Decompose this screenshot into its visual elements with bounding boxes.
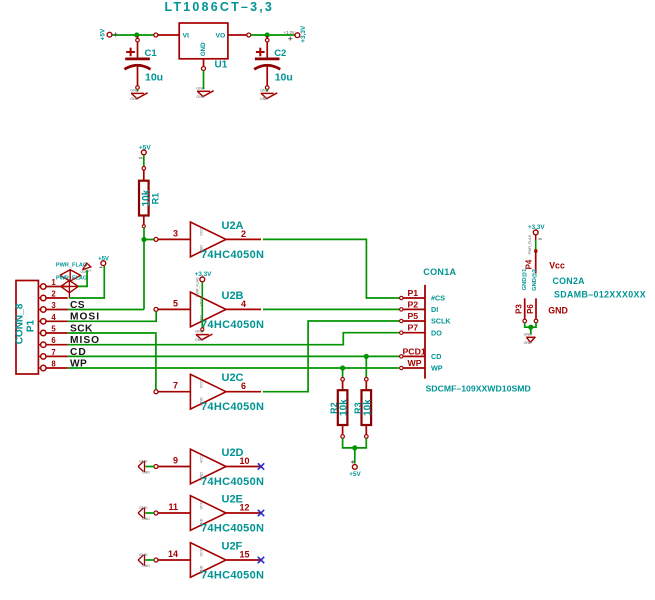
- svg-text:74HC4050N: 74HC4050N: [201, 319, 264, 331]
- svg-text:+3,3V: +3,3V: [284, 30, 295, 35]
- svg-text:GND: GND: [196, 95, 204, 99]
- pin GND of U1: [203, 59, 205, 68]
- svg-text:9: 9: [173, 456, 178, 466]
- svg-text:GND: GND: [524, 341, 532, 345]
- ground at U2E input: [144, 507, 146, 518]
- op-amp buffer U2B 74HC4050N: [190, 292, 226, 327]
- svg-text:U2B: U2B: [222, 290, 244, 302]
- wire +5V to R1: [143, 155, 145, 168]
- wire CON2A grounds join: [525, 323, 536, 327]
- svg-text:U2D: U2D: [222, 447, 244, 459]
- svg-text:5: 5: [51, 325, 56, 334]
- svg-text:GND: GND: [524, 332, 533, 336]
- pin 3 of P1: [38, 309, 40, 311]
- pin P3 of CON2A: [524, 298, 526, 320]
- wire MISO net to CON1A P7: [68, 333, 400, 345]
- pin VO of U1: [228, 34, 249, 36]
- svg-text:P6: P6: [526, 304, 535, 314]
- wire U2B output to CON1A P2 (net P2): [263, 308, 400, 310]
- wire junction C1 to U1 VI pin: [137, 34, 154, 36]
- wire CS net vertical: [143, 240, 145, 310]
- svg-text:GND: GND: [139, 553, 148, 557]
- svg-text:VCC: VCC: [200, 455, 204, 463]
- svg-text:VI: VI: [183, 32, 190, 39]
- capacitor C2 10u: [266, 36, 268, 58]
- svg-text:MOSI: MOSI: [70, 312, 100, 323]
- svg-text:10u: 10u: [145, 72, 163, 84]
- power pennant flag above pin1: [82, 263, 91, 270]
- op-amp buffer U2D 74HC4050N: [190, 449, 226, 484]
- svg-text:C2: C2: [274, 48, 286, 59]
- node junction CD/R3: [364, 354, 369, 359]
- svg-text:7: 7: [51, 348, 55, 357]
- svg-text:P1: P1: [408, 288, 419, 298]
- svg-text:GND: GND: [200, 565, 204, 574]
- svg-text:GND: GND: [548, 305, 568, 315]
- svg-text:GND: GND: [200, 518, 204, 527]
- svg-text:GND: GND: [260, 97, 268, 101]
- pin P7 of CON1A (DO): [402, 332, 426, 334]
- node junction CON2A gnd: [528, 325, 533, 330]
- ground below C1: [131, 92, 144, 94]
- svg-text:3V+: 3V+: [85, 269, 92, 273]
- pin 5 of P1: [38, 332, 40, 334]
- svg-text:2: 2: [51, 290, 56, 299]
- svg-text:74HC4050N: 74HC4050N: [201, 476, 264, 488]
- wire MOSI jog to U2B input: [68, 311, 157, 321]
- svg-text:+5V: +5V: [99, 28, 106, 40]
- wire junction down to +5V: [354, 448, 356, 464]
- svg-text:4: 4: [51, 313, 56, 322]
- svg-text:74HC4050N: 74HC4050N: [201, 401, 264, 413]
- wire +5V to junction at C1: [112, 34, 137, 36]
- svg-text:CD: CD: [70, 347, 87, 358]
- pin 1 of P1: [38, 286, 40, 288]
- wire SCK net to U2C input: [68, 333, 156, 390]
- no-connect U2D output: [258, 463, 264, 469]
- svg-text:10k: 10k: [339, 399, 350, 416]
- svg-text:U2E: U2E: [222, 494, 243, 506]
- wire WP net to CON1A WP: [68, 367, 399, 369]
- svg-text:GND: GND: [196, 86, 205, 90]
- svg-text:3: 3: [51, 301, 56, 310]
- pin WP of CON1A (WP): [402, 367, 426, 369]
- wire pin1 to pennant: [78, 270, 87, 286]
- resistor R3 10k pullup CD: [365, 356, 367, 379]
- node junction R1 / U2A input / CS: [141, 237, 146, 242]
- pin 8 of P1: [38, 367, 40, 369]
- op-amp buffer U2E 74HC4050N: [190, 496, 226, 531]
- pin P4 of CON2A (Vcc): [534, 249, 537, 252]
- svg-text:CS: CS: [70, 300, 85, 311]
- wire junction C2 to +3.3V: [267, 34, 295, 36]
- pin 2 of P1: [38, 297, 40, 299]
- svg-text:U2C: U2C: [222, 372, 244, 384]
- svg-text:+5V: +5V: [349, 471, 361, 478]
- svg-text:VCC: VCC: [200, 380, 204, 388]
- pin 7 of P1: [38, 355, 40, 357]
- wire +3.3V to CON2A P4: [535, 240, 537, 251]
- svg-text:14: 14: [168, 549, 178, 559]
- svg-text:GND: GND: [200, 42, 207, 56]
- op-amp buffer U2C 74HC4050N: [190, 374, 226, 409]
- svg-text:11: 11: [168, 502, 178, 512]
- svg-text:P2: P2: [408, 299, 419, 309]
- wire R2/R3 bottoms join: [343, 438, 367, 448]
- svg-text:R1: R1: [150, 193, 160, 205]
- svg-text:74HC4050N: 74HC4050N: [201, 249, 264, 261]
- svg-text:3: 3: [173, 228, 178, 238]
- power flag tick on +5V wire: [115, 32, 117, 36]
- svg-text:MISO: MISO: [70, 335, 100, 346]
- svg-text:C1: C1: [145, 48, 158, 59]
- svg-text:CD: CD: [431, 352, 441, 361]
- ground below CON2A: [526, 336, 535, 338]
- pin P5 of CON1A (SCLK): [402, 320, 426, 322]
- node junction WP/R2: [340, 365, 345, 370]
- ground below C2: [261, 92, 274, 94]
- op-amp buffer U2A 74HC4050N: [190, 222, 226, 257]
- svg-text:R3: R3: [353, 402, 363, 414]
- svg-text:GND@2: GND@2: [532, 269, 538, 291]
- svg-text:R2: R2: [329, 402, 339, 414]
- wire gnd to U2D input: [145, 466, 154, 468]
- ground below U1: [197, 90, 210, 92]
- svg-text:GND: GND: [260, 88, 269, 92]
- svg-text:VCC: VCC: [200, 501, 204, 509]
- regulator U1 LT1086CT-3,3: [179, 23, 228, 59]
- pin P6 of CON2A: [535, 298, 537, 320]
- svg-text:DI: DI: [431, 305, 438, 314]
- svg-text:WP: WP: [408, 358, 422, 368]
- wire R1 to junction U2A input: [143, 228, 145, 240]
- svg-text:Vcc: Vcc: [549, 260, 565, 270]
- ground at U2D input: [144, 461, 146, 472]
- svg-text:GND: GND: [200, 397, 204, 406]
- svg-text:LT1086CT–3,3: LT1086CT–3,3: [165, 0, 275, 14]
- svg-text:74HC4050N: 74HC4050N: [201, 523, 264, 535]
- connector P1 CONN_8: [16, 281, 38, 375]
- svg-text:7: 7: [173, 381, 178, 391]
- wire junction to ground: [530, 327, 532, 334]
- svg-text:PWR_FLAG: PWR_FLAG: [195, 277, 199, 297]
- svg-text:PWR_FLAG: PWR_FLAG: [56, 276, 87, 282]
- wire U2B VCC-GND vertical: [201, 282, 203, 332]
- svg-text:P5: P5: [408, 311, 419, 321]
- svg-text:#CS: #CS: [431, 294, 445, 303]
- pin VI of U1: [157, 34, 180, 36]
- svg-text:P3: P3: [515, 304, 524, 314]
- pin 6 of P1: [38, 344, 40, 346]
- svg-text:WP: WP: [70, 358, 87, 369]
- svg-text:U1: U1: [215, 59, 228, 70]
- svg-text:CON1A: CON1A: [423, 267, 456, 277]
- svg-text:PCD1: PCD1: [403, 346, 426, 356]
- svg-text:74HC4050N: 74HC4050N: [201, 570, 264, 582]
- capacitor C1 10u: [137, 36, 139, 58]
- connector CON1A SDCMF-109XXWD10SMD: [424, 285, 426, 379]
- node junction C1/+5V: [134, 32, 139, 37]
- wire VO to junction C2: [251, 34, 267, 36]
- svg-text:P1: P1: [26, 319, 37, 332]
- wire junction to U2A input pin: [144, 239, 154, 241]
- svg-text:GND: GND: [130, 88, 139, 92]
- svg-text:6: 6: [51, 336, 56, 345]
- svg-text:PWR_FLAG: PWR_FLAG: [56, 262, 87, 268]
- wire U2C output to CON1A P5 (net P5): [263, 321, 400, 392]
- svg-text:PWR_FLAG: PWR_FLAG: [528, 234, 532, 254]
- svg-text:VCC: VCC: [200, 548, 204, 556]
- svg-text:DO: DO: [431, 328, 442, 337]
- svg-text:SDCMF–109XXWD10SMD: SDCMF–109XXWD10SMD: [426, 384, 531, 394]
- svg-text:GND: GND: [142, 564, 150, 568]
- wire CD net to CON1A PCD1: [68, 355, 400, 357]
- svg-text:GND: GND: [142, 470, 150, 474]
- svg-text:P7: P7: [408, 323, 419, 333]
- wire CS net horizontal from P1 pin3: [68, 309, 144, 311]
- resistor R1 10k: [142, 167, 146, 171]
- svg-text:8: 8: [51, 360, 56, 369]
- svg-text:GND@1: GND@1: [522, 268, 528, 291]
- svg-text:GND: GND: [200, 472, 204, 481]
- svg-text:SDAMB–012XXX0XX: SDAMB–012XXX0XX: [554, 290, 646, 300]
- pin 4 of P1: [38, 320, 40, 322]
- svg-text:+3,3V: +3,3V: [300, 25, 307, 43]
- svg-text:WP: WP: [431, 364, 443, 373]
- svg-text:GND: GND: [139, 506, 148, 510]
- wire U1 GND to ground: [203, 71, 205, 90]
- resistor R2 10k pullup WP: [342, 368, 344, 379]
- wire gnd to U2E input: [145, 512, 154, 514]
- power symbol +5V below R2 R3: [352, 461, 354, 464]
- node junction R2/R3 to +5V: [352, 445, 357, 450]
- node junction C2/+3.3V: [265, 32, 270, 37]
- svg-text:U2A: U2A: [222, 220, 244, 232]
- svg-text:10u: 10u: [275, 72, 293, 84]
- svg-text:SCLK: SCLK: [431, 317, 451, 326]
- svg-text:5: 5: [173, 298, 178, 308]
- svg-text:GND: GND: [195, 338, 203, 342]
- power symbol +3.3V (top right): [295, 33, 300, 38]
- svg-text:VO: VO: [215, 32, 225, 39]
- svg-text:GND: GND: [200, 245, 204, 254]
- svg-text:VCC: VCC: [200, 228, 204, 236]
- no-connect U2E output: [258, 510, 264, 516]
- pin PCD1 of CON1A (CD): [402, 355, 426, 357]
- svg-text:GND: GND: [130, 97, 138, 101]
- svg-text:SCK: SCK: [70, 323, 93, 334]
- svg-text:10k: 10k: [362, 399, 373, 416]
- svg-text:CON2A: CON2A: [553, 276, 586, 286]
- svg-text:GND: GND: [139, 460, 148, 464]
- wire gnd to U2F input: [145, 559, 154, 561]
- op-amp buffer U2F 74HC4050N: [190, 543, 226, 578]
- svg-text:U2F: U2F: [222, 541, 243, 553]
- wire U2A output to CON1A P1 (net P1): [263, 239, 400, 298]
- ground below U2B: [196, 334, 209, 336]
- wire pin2 to +5V: [69, 266, 104, 298]
- ground at U2F input: [144, 554, 146, 565]
- svg-text:GND: GND: [195, 330, 204, 334]
- no-connect U2F output: [258, 557, 264, 563]
- svg-text:GND: GND: [142, 517, 150, 521]
- pin P2 of CON1A (DI): [402, 308, 426, 310]
- svg-text:CONN_8: CONN_8: [15, 303, 26, 344]
- pin P1 of CON1A (#CS): [402, 297, 426, 299]
- svg-text:P4: P4: [525, 259, 534, 269]
